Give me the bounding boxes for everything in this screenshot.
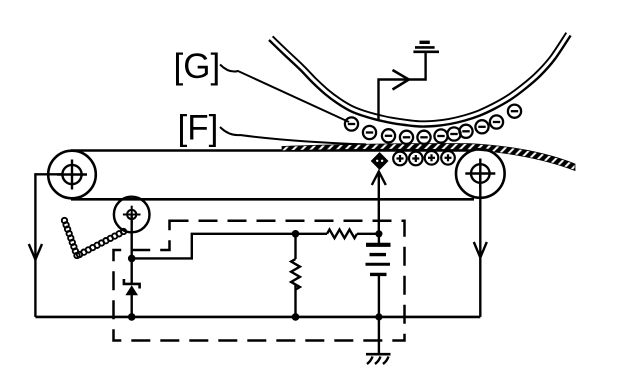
- ground symbol (HV return, bottom): [366, 354, 391, 364]
- bias wire from transfer contact down: [378, 172, 380, 234]
- bias roller: [114, 197, 150, 233]
- drum ground wire: [379, 53, 426, 121]
- wire: zener to rail: [130, 295, 132, 317]
- drum ground symbol (top): [413, 42, 439, 52]
- belt top run: [71, 149, 472, 152]
- left roller: [48, 151, 96, 199]
- cleaning blade (ring chain, arm 2): [77, 229, 126, 257]
- left down arrow: [29, 244, 42, 260]
- cleaning blade (ring chain, arm 1): [62, 218, 80, 258]
- leader line from [G] to toner: [220, 65, 349, 123]
- left return wire: [35, 174, 62, 317]
- resistor R1 (horizontal): [327, 230, 357, 239]
- wire: bias roller down to zener: [130, 215, 132, 284]
- arrow on drum ground wire: [393, 70, 409, 90]
- wire: battery bottom to rail and ground: [378, 276, 380, 354]
- wire: node to step: [132, 234, 327, 259]
- junction dots: [128, 230, 383, 321]
- HV power supply enclosure (dashed box): [114, 221, 405, 341]
- transfer sheet (hatched band): [282, 144, 575, 171]
- drum inner arc: [273, 33, 567, 122]
- bottom rail wire: [35, 316, 480, 319]
- belt bottom run: [71, 198, 474, 201]
- right down arrow: [474, 242, 487, 258]
- zener diode D1: [124, 279, 140, 289]
- battery B1 (HV source): [366, 245, 391, 275]
- toner particles (positive) under belt: [393, 151, 455, 165]
- svg-text:[F]: [F]: [178, 109, 219, 148]
- wire: R2 bottom to rail: [294, 285, 296, 317]
- drum (photoreceptor) outer arc: [269, 36, 571, 127]
- wire: R2 branch top: [294, 234, 296, 259]
- resistor R2 (vertical): [291, 259, 300, 290]
- toner particles (negative) on drum: [345, 105, 521, 144]
- transfer contact (diamond): [372, 153, 387, 168]
- svg-text:[G]: [G]: [174, 47, 221, 86]
- leader line from [F] to belt: [220, 127, 366, 144]
- wire: battery top: [378, 234, 380, 243]
- right roller: [456, 149, 505, 198]
- right return wire: [479, 174, 481, 317]
- up arrow on bias wire: [372, 172, 386, 186]
- wire: R1 to battery node: [357, 233, 379, 235]
